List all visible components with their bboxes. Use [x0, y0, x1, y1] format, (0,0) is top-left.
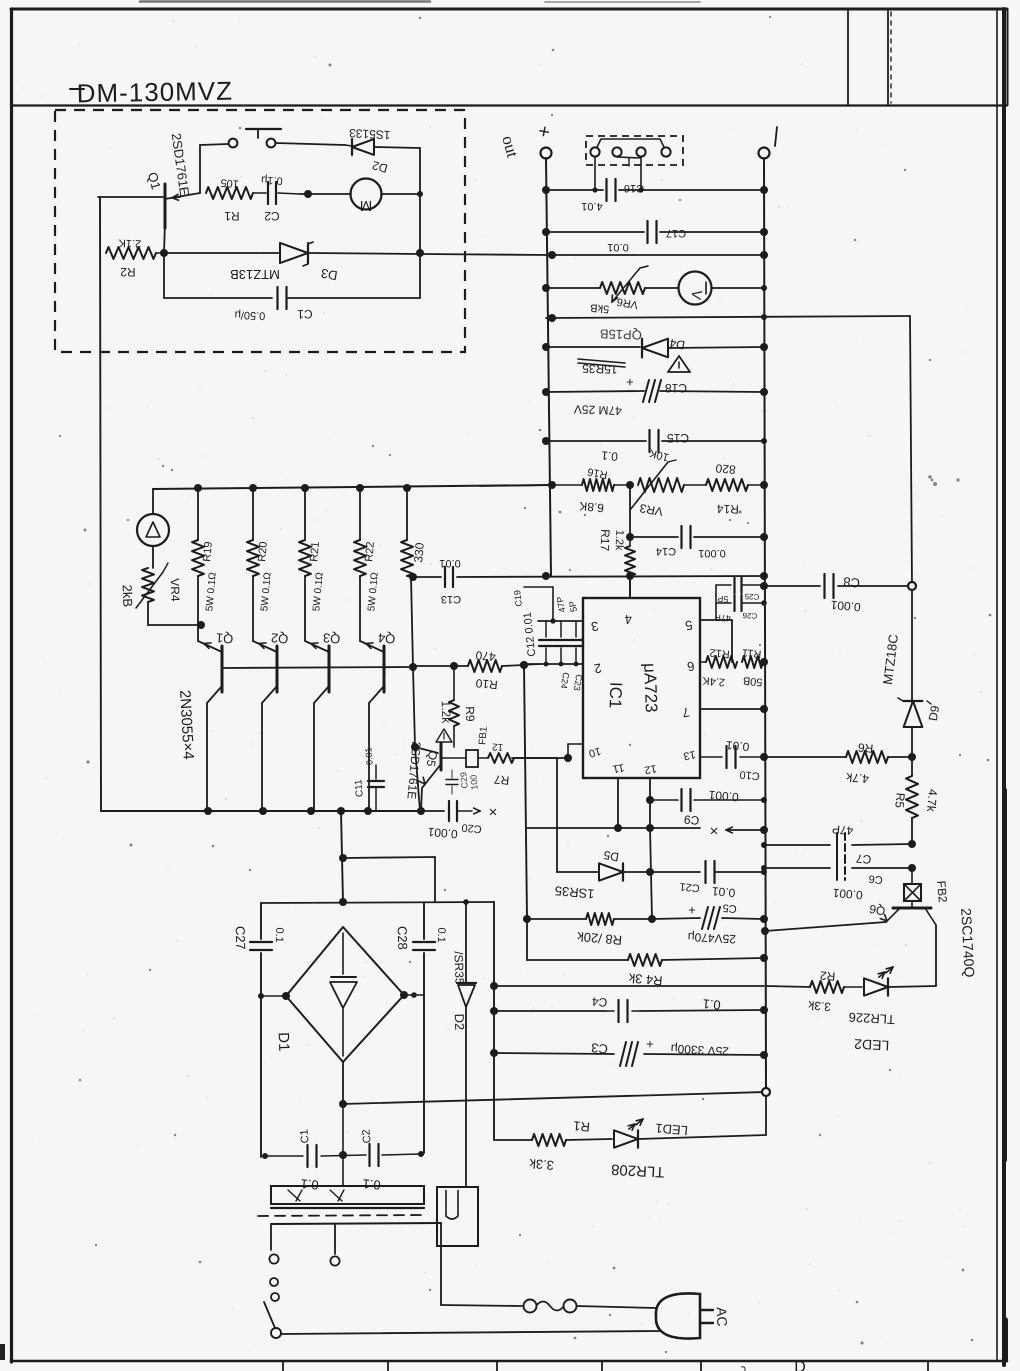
wire C12 rail top [538, 620, 583, 622]
wire row C17 [546, 231, 644, 233]
capacitor C23 [575, 621, 577, 637]
bridge stub left [261, 995, 286, 997]
border frame right outer [1002, 9, 1006, 1365]
ferrite bead FB1 [441, 757, 466, 759]
wire left bus [546, 158, 551, 576]
wire row VR6 [546, 287, 600, 289]
wire pin10 stub [567, 744, 569, 758]
title block divider line [11, 104, 1007, 106]
node bus bottom open [762, 1088, 770, 1096]
svg-text:C11: C11 [353, 779, 366, 798]
svg-text:C16: C16 [624, 182, 644, 194]
terminal + (left bus) [541, 148, 552, 159]
diode D2 (1S5133) [352, 139, 374, 155]
svg-text:R1: R1 [573, 1118, 591, 1134]
svg-text:0.01: 0.01 [725, 738, 750, 754]
svg-text:330: 330 [411, 542, 427, 563]
svg-text:R2: R2 [819, 968, 836, 983]
connector jumper arc [597, 139, 664, 147]
svg-text:R21: R21 [308, 541, 322, 562]
svg-text:2.4K: 2.4K [701, 674, 725, 688]
wire C12 rail bottom (pin2) [522, 663, 583, 665]
svg-text:R20: R20 [256, 541, 270, 562]
svg-text:0.1μ: 0.1μ [261, 173, 283, 186]
transistor Q5 (2SD1761E) [415, 747, 438, 753]
svg-text:TLR226: TLR226 [848, 1010, 895, 1027]
svg-text:C3: C3 [591, 1040, 609, 1056]
wire C12 group bracket [524, 586, 553, 588]
svg-text:DM-130MVZ: DM-130MVZ [76, 76, 233, 109]
border frame right dark low [1002, 1320, 1008, 1360]
svg-text:11: 11 [612, 761, 625, 775]
svg-text:D: D [794, 1359, 806, 1371]
wire R10 row to C12 rails [524, 664, 540, 665]
svg-text:+: + [626, 375, 634, 390]
svg-text:2N3055×4: 2N3055×4 [176, 690, 197, 760]
bottom table tick 1 [282, 1362, 284, 1371]
wire bridge bottom down [342, 1062, 344, 1104]
capacitor C16 [605, 179, 607, 201]
svg-text:R14: R14 [716, 502, 739, 517]
wire row C5/R8 [527, 918, 586, 920]
push button switch [229, 139, 238, 148]
wire column Q4 top [359, 487, 361, 540]
wire collector bus [153, 485, 552, 489]
wire right column top [910, 316, 912, 586]
title block vertical 2 dashed [890, 12, 892, 103]
capacitor C11 [375, 765, 377, 779]
svg-text:C8: C8 [843, 574, 861, 590]
svg-text:47P: 47P [831, 822, 853, 838]
ferrite bead FB2 [911, 872, 913, 884]
svg-text:0.1: 0.1 [273, 927, 286, 943]
svg-text:2kB: 2kB [120, 584, 136, 607]
title block vertical 1 [847, 10, 849, 105]
resistor R8 20k [586, 913, 614, 925]
svg-text:C13: C13 [441, 593, 461, 605]
transistor Q4 2N3055 [360, 641, 384, 652]
node VR3/R16 [626, 481, 634, 489]
svg-text:TLR208: TLR208 [611, 1161, 665, 1181]
wire connector pin1 down [594, 157, 596, 190]
svg-text:R9: R9 [463, 706, 478, 722]
resistor R22 5W 0.1ohm [354, 540, 366, 576]
wire Q1 base [98, 196, 163, 198]
capacitor C2 [253, 192, 266, 194]
svg-text:R2: R2 [120, 265, 136, 279]
svg-text:Q3: Q3 [322, 630, 341, 646]
svg-text:C25: C25 [744, 592, 760, 602]
wire base bus [222, 667, 413, 668]
svg-text:C4: C4 [591, 994, 608, 1009]
op-amp regulator IC1 uA723 box [583, 598, 700, 778]
svg-text:3.3k: 3.3k [807, 998, 832, 1014]
wire meter to bus [712, 287, 764, 289]
svg-text:R17: R17 [598, 529, 613, 552]
svg-text:C20: C20 [461, 821, 482, 835]
svg-text:×: × [710, 822, 719, 839]
svg-text:Q5: Q5 [424, 750, 441, 769]
potentiometer VR4 2kB [142, 568, 154, 602]
resistor R21 5W 0.1ohm [299, 540, 311, 576]
bottom table tick 2 [387, 1362, 389, 1371]
wire switch to plug bottom [281, 1331, 660, 1334]
wire row 858 [343, 857, 435, 858]
svg-text:LED1: LED1 [655, 1121, 689, 1139]
wire row LED2/R2 [494, 985, 764, 987]
capacitor C15 [648, 430, 650, 452]
svg-text:Q6: Q6 [868, 902, 887, 919]
transistor Q1 2N3055 [198, 641, 222, 652]
capacitor C13 [444, 567, 446, 587]
svg-text:C17: C17 [666, 227, 686, 239]
wire right column mid [911, 590, 913, 702]
wire VR4 to Q1 column [148, 624, 201, 626]
node C8 right (open) [908, 582, 916, 590]
wire rect left edge [260, 903, 262, 939]
svg-text:+: + [688, 903, 696, 918]
svg-text:R19: R19 [201, 541, 215, 562]
capacitor C26 47P [716, 602, 731, 604]
svg-text:0.1: 0.1 [435, 927, 448, 943]
resistor R20 5W 0.1ohm [247, 540, 259, 576]
wire vertical 524 down [524, 665, 527, 919]
border frame left [10, 9, 13, 1362]
svg-text:0.1: 0.1 [702, 996, 721, 1013]
svg-text:0.001: 0.001 [830, 598, 861, 615]
wire pin12 down [649, 778, 651, 828]
svg-text:105: 105 [220, 176, 239, 190]
transistor Q6 (2SC1740Q) [911, 901, 913, 908]
resistor R16 6.8K [552, 484, 582, 486]
transformer secondary box [271, 1186, 424, 1204]
capacitor C28 0.1 [413, 941, 435, 943]
wire row C7 [764, 844, 830, 846]
resistor R6 4.7k [764, 756, 846, 758]
wire pin4 [629, 576, 631, 598]
resistor R19 5W 0.1ohm [192, 540, 204, 576]
resistor R2 (2.1K) [106, 247, 156, 259]
svg-text:/SR35: /SR35 [451, 951, 466, 985]
wire column Q1 top [197, 487, 199, 540]
svg-text:LED2: LED2 [854, 1036, 890, 1054]
wire right bus [764, 158, 766, 1092]
motor M [351, 179, 382, 210]
junction bottom bus x341 [337, 807, 345, 815]
wire push button to R1 node [199, 145, 201, 193]
svg-text:D3: D3 [320, 266, 339, 284]
bridge stub right [404, 994, 424, 996]
wire motor right [381, 193, 420, 195]
svg-text:C21: C21 [679, 880, 700, 894]
wire center tap [342, 1155, 344, 1186]
svg-text:FB2: FB2 [934, 880, 950, 903]
connector link pins 2-3 [617, 157, 641, 158]
svg-text:D9: D9 [926, 704, 943, 722]
svg-text:47P: 47P [715, 613, 731, 624]
wire connector pin3 down [640, 157, 642, 190]
bridge inner diode [342, 933, 344, 974]
svg-text:C1: C1 [298, 1129, 311, 1144]
wire vert 650 (pin12 net) [650, 828, 652, 919]
wire pin5 [700, 619, 732, 621]
svg-text:IC1: IC1 [606, 682, 626, 709]
junction bottom bus x263 [259, 807, 267, 815]
svg-text:2.1K: 2.1K [118, 237, 142, 250]
svg-text:D2: D2 [452, 1013, 468, 1030]
svg-text:M: M [360, 197, 373, 214]
wire column Q3 top [304, 487, 306, 540]
power switch [270, 1278, 278, 1286]
transistor Q2 2N3055 [253, 641, 277, 652]
diode D2 vertical (1SR35) [465, 902, 467, 982]
wire row C9 [650, 799, 678, 801]
capacitor C8 [823, 574, 825, 598]
resistor R10 470 [413, 665, 468, 667]
svg-text:0.1: 0.1 [600, 448, 618, 463]
svg-text:R12: R12 [709, 646, 730, 660]
border frame right inner [996, 9, 998, 1361]
svg-text:0.50/μ: 0.50/μ [234, 308, 265, 321]
AC plug [656, 1293, 700, 1338]
svg-text:4.7k: 4.7k [845, 770, 870, 786]
title block vertical 2 [887, 10, 889, 105]
capacitor C29 faint [451, 770, 453, 778]
resistor R1 [206, 187, 253, 199]
svg-text:5P: 5P [567, 600, 579, 613]
wire pin11 down [617, 778, 619, 828]
wire row C3 [494, 1053, 614, 1054]
diode D4 (QP15B) [546, 346, 640, 348]
svg-text:4.7k: 4.7k [924, 788, 940, 813]
capacitor C4 [617, 1000, 619, 1022]
bottom table tick 5 [700, 1362, 702, 1371]
wire pin7 [700, 708, 764, 710]
svg-text:QP15B: QP15B [600, 326, 642, 342]
resistor R14 820 [684, 484, 706, 486]
terminal right bus [759, 148, 770, 159]
wire row C4 [494, 1010, 606, 1012]
transistor Q1 (2SD1761E) [164, 184, 167, 228]
svg-text:0.1: 0.1 [362, 1176, 381, 1193]
node R10/C12 vertical [520, 661, 528, 669]
bottom table tick 6 [927, 1362, 929, 1371]
resistor R4 3k [527, 959, 628, 961]
svg-text:C18: C18 [665, 381, 687, 395]
svg-text:12: 12 [491, 740, 503, 752]
wire R1C2 row to motor [300, 193, 351, 195]
svg-text:R22: R22 [363, 541, 377, 562]
svg-text:50B: 50B [742, 674, 763, 688]
svg-text:C10: C10 [739, 768, 760, 782]
wire rect right edge [423, 903, 425, 939]
svg-text:1.2k: 1.2k [613, 530, 626, 552]
border frame right outer dark segment [1002, 790, 1007, 1160]
wire 330 column down [411, 577, 413, 667]
svg-text:0.001: 0.001 [708, 788, 739, 805]
wire row C18 [546, 391, 644, 392]
primary tap circles [269, 1254, 278, 1263]
border frame right top stub [1007, 10, 1009, 105]
svg-text:0.001: 0.001 [832, 886, 863, 903]
capacitor C3 electrolytic 3300u [620, 1042, 626, 1066]
potentiometer VR3 10K [638, 478, 684, 492]
capacitor C1 xfmr [306, 1145, 308, 1167]
svg-text:C2: C2 [360, 1129, 373, 1144]
svg-text:AC: AC [714, 1307, 731, 1327]
capacitor C14 [680, 526, 682, 548]
wire Q5 collector column [413, 667, 415, 747]
warning triangle FB1 [436, 729, 452, 742]
scan artifact bottom-left blob [0, 1344, 5, 1360]
wire bus to bridge vertical [341, 811, 343, 902]
svg-text:13: 13 [682, 748, 696, 762]
svg-text:0.01: 0.01 [439, 557, 460, 569]
svg-text:47M 25V: 47M 25V [574, 402, 622, 418]
wire row318 to right column [546, 316, 910, 318]
border frame bottom [11, 1360, 1007, 1363]
capacitor C2 xfmr [368, 1144, 370, 1166]
svg-text:FB1: FB1 [477, 726, 490, 746]
svg-text:5kB: 5kB [590, 301, 610, 315]
wire row C6 [764, 867, 830, 869]
fuse [441, 1305, 522, 1306]
transformer core dashed line [258, 1215, 424, 1216]
svg-text:4.01: 4.01 [581, 200, 602, 212]
ammeter A [152, 489, 154, 514]
wire row C15 [546, 440, 646, 442]
capacitor C25 5P [716, 584, 731, 586]
voltmeter [645, 287, 678, 289]
transistor Q3 2N3055 [305, 641, 329, 652]
svg-text:0.01: 0.01 [711, 884, 736, 900]
capacitor C18 electrolytic [643, 380, 649, 402]
wire row C8 [764, 585, 820, 587]
resistor R9 1.2k [453, 666, 455, 700]
svg-text:C2: C2 [264, 209, 280, 223]
resistor R2 3.3k [810, 981, 844, 993]
warning triangle D4 [668, 356, 690, 372]
svg-text:3.3k: 3.3k [528, 1156, 554, 1173]
capacitor C6 0.001 [836, 856, 838, 880]
svg-text:R5: R5 [892, 792, 907, 809]
svg-text:Q4: Q4 [377, 630, 396, 646]
junction bottom bus x311 [307, 807, 315, 815]
resistor 330 [406, 487, 408, 540]
resistor R12 2.4K [700, 661, 706, 663]
svg-text:0.01: 0.01 [363, 747, 374, 765]
svg-text:5P: 5P [717, 594, 728, 604]
svg-text:R11: R11 [742, 646, 762, 660]
capacitor C12 [545, 621, 547, 637]
capacitor C24 [560, 621, 562, 637]
svg-text:C1: C1 [297, 307, 313, 321]
wire row VR3 left [480, 485, 552, 486]
wire row LED1 [494, 1139, 532, 1141]
resistor R11 [742, 656, 763, 668]
svg-text:μA723: μA723 [640, 663, 661, 713]
wire C25/C26 bracket [715, 585, 717, 620]
svg-text:Q2: Q2 [270, 630, 289, 646]
svg-text:C7: C7 [855, 851, 872, 866]
svg-text:C26: C26 [742, 611, 758, 621]
wire primary right down [440, 1223, 442, 1305]
junction bottom bus x208 [204, 807, 212, 815]
capacitor C10 [725, 746, 727, 768]
scan artifact top edge [140, 0, 430, 3]
svg-text:╮: ╮ [740, 1360, 748, 1371]
wire bottom bus [101, 810, 421, 812]
svg-text:0.001: 0.001 [698, 547, 726, 559]
svg-text:25V470μ: 25V470μ [687, 930, 736, 947]
svg-text:100: 100 [468, 774, 479, 790]
wire ground row 828 [527, 827, 700, 829]
svg-text:4: 4 [624, 612, 633, 628]
svg-text:C6: C6 [868, 872, 883, 885]
wire zener to R6 node [911, 727, 913, 757]
wire D3 row exits box [420, 254, 552, 255]
svg-text:R7: R7 [493, 772, 510, 787]
svg-text:C9: C9 [683, 812, 700, 827]
bridge rectifier D1 diamond [286, 927, 404, 1062]
bottom table tick 4 [601, 1362, 603, 1371]
dashed box (timer sub-circuit) [55, 110, 465, 352]
svg-text:D1: D1 [275, 1032, 293, 1052]
resistor R5 4.7k [911, 757, 913, 776]
zener D9 (MTZ18C) [904, 701, 923, 727]
capacitor C20 0.001 [421, 810, 444, 812]
svg-text:+: + [646, 1037, 654, 1052]
svg-text:MTZ13B: MTZ13B [230, 267, 280, 282]
capacitor C21 0.01 [650, 871, 700, 873]
D2 holder box [437, 1187, 478, 1246]
svg-text:1S5133: 1S5133 [348, 126, 390, 142]
capacitor C5 electrolytic 470u [652, 918, 700, 919]
capacitor C1 [163, 253, 165, 298]
resistor R7 [488, 753, 514, 763]
junction bottom bus x421 [417, 807, 425, 815]
node Q1/R2/D3 [160, 249, 168, 257]
wire ground return row [343, 1092, 766, 1104]
connector pins [590, 147, 599, 156]
transformer secondary marks [288, 1190, 300, 1201]
capacitor C9 0.001 [680, 789, 682, 811]
wire row C14 [630, 536, 678, 538]
diode D5 (1SR35) [557, 871, 598, 873]
svg-text:Q1: Q1 [215, 630, 234, 646]
wire VR3 node down [629, 485, 631, 537]
wire base row 758 [512, 757, 568, 759]
capacitor C7 47P [836, 833, 838, 857]
resistor R1 3.3k [532, 1134, 566, 1146]
svg-text:C19: C19 [512, 590, 524, 607]
border frame top [11, 8, 1007, 11]
zener D3 (MTZ13B) [164, 252, 280, 254]
wire column Q2 top [252, 487, 254, 540]
LED2 (TLR226) [844, 986, 862, 988]
transformer primary box [271, 1223, 441, 1224]
label 1 [775, 127, 777, 146]
svg-text:12: 12 [643, 762, 657, 776]
net X arrow left [479, 810, 481, 812]
capacitor C27 0.1 [250, 941, 272, 943]
connector dashed box [586, 136, 683, 165]
wire vert 494 [493, 902, 495, 1140]
svg-text:D5: D5 [602, 848, 620, 865]
svg-text:D4: D4 [668, 336, 686, 353]
svg-text:C27: C27 [233, 926, 249, 950]
wire bridge bottom to C1C2 row [342, 1104, 344, 1155]
